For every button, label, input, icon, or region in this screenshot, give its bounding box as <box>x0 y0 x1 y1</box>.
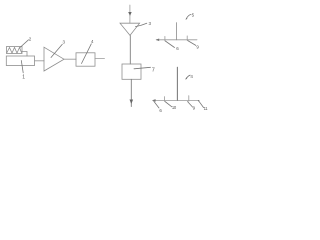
bottom comb: horizontal line <box>153 99 199 101</box>
svg-text:10: 10 <box>172 105 177 110</box>
leader to label 10 <box>165 102 172 107</box>
top comb: tick left <box>164 36 166 41</box>
output wire below box 7 <box>130 79 132 106</box>
arrowhead at right end of bottom comb <box>198 100 200 102</box>
svg-text:1: 1 <box>22 75 25 81</box>
leader to label 6 bottom <box>154 101 159 108</box>
down arrowhead on output <box>130 100 134 105</box>
wire funnel to box 7 <box>129 35 131 64</box>
svg-text:2: 2 <box>29 36 32 41</box>
svg-text:6: 6 <box>159 108 162 113</box>
svg-text:9: 9 <box>193 106 196 111</box>
svg-text:9: 9 <box>196 44 199 49</box>
bottom comb: tick right <box>188 96 190 102</box>
resistor zigzag <box>7 48 22 54</box>
leader to label 11 <box>199 101 204 108</box>
leader to label 5 <box>186 14 191 19</box>
leader to label 6 <box>165 41 174 48</box>
svg-text:6: 6 <box>176 46 179 51</box>
svg-text:4: 4 <box>91 39 94 44</box>
leader to label 3 <box>51 44 62 57</box>
svg-text:7: 7 <box>152 68 155 74</box>
svg-text:11: 11 <box>204 106 209 111</box>
leader to label 4 <box>82 44 92 64</box>
top comb: tick right <box>186 36 188 41</box>
box 7 <box>122 64 141 79</box>
funnel 3 <box>120 23 140 35</box>
down arrow on input line <box>128 12 132 16</box>
output wire <box>95 58 105 60</box>
leader to label 2 <box>20 40 29 48</box>
svg-text:3: 3 <box>63 40 66 45</box>
amplifier triangle 3 <box>44 47 64 71</box>
svg-text:5: 5 <box>192 12 195 17</box>
arrowhead of leader 4 bottom <box>185 77 187 79</box>
top comb: vertical line 5 <box>176 23 178 40</box>
box 1 <box>6 56 34 66</box>
input line <box>129 5 131 23</box>
wire box1 to amplifier <box>35 60 45 62</box>
resistor box 2 <box>7 47 23 54</box>
svg-text:4: 4 <box>190 74 193 79</box>
arrowhead of leader 5 <box>185 18 187 20</box>
leader to label 4 bottom <box>186 75 190 79</box>
bottom comb: vertical line 4 <box>176 67 178 100</box>
leader to label 1 <box>21 61 23 73</box>
step connector wire between box 2 and box 1 <box>22 52 27 57</box>
leader to label 9 top <box>188 41 196 46</box>
top comb: horizontal line <box>156 39 197 41</box>
leader to label 9 bottom <box>188 102 193 108</box>
svg-text:3: 3 <box>149 21 152 26</box>
bottom comb: tick left <box>164 97 166 102</box>
box 4 <box>76 53 95 66</box>
leader to label 3 right <box>136 23 147 26</box>
leader to label 7 <box>134 67 151 69</box>
wire amplifier to box 4 <box>64 58 76 60</box>
top comb: left arrowhead <box>156 39 160 42</box>
bottom comb: left arrowhead <box>152 99 156 102</box>
